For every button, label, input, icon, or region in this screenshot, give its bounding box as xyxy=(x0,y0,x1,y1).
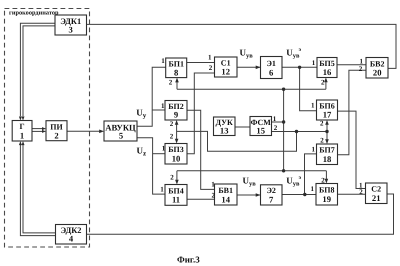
svg-text:2: 2 xyxy=(209,64,213,72)
svg-text:1: 1 xyxy=(160,185,164,193)
svg-text:20: 20 xyxy=(373,67,382,77)
svg-text:11: 11 xyxy=(172,195,180,205)
svg-text:1: 1 xyxy=(312,59,316,67)
svg-text:1: 1 xyxy=(311,102,315,110)
svg-text:2: 2 xyxy=(170,174,174,182)
svg-text:1: 1 xyxy=(208,53,212,61)
svg-text:2: 2 xyxy=(320,137,324,145)
svg-text:2: 2 xyxy=(320,120,324,128)
svg-text:5: 5 xyxy=(119,131,123,141)
svg-text:7: 7 xyxy=(269,194,274,204)
svg-text:2: 2 xyxy=(359,65,363,73)
svg-text:3: 3 xyxy=(69,25,73,35)
svg-text:2: 2 xyxy=(359,188,363,196)
svg-text:15: 15 xyxy=(256,126,265,136)
svg-text:2: 2 xyxy=(170,120,174,128)
svg-text:2: 2 xyxy=(170,132,174,140)
svg-text:13: 13 xyxy=(220,126,229,136)
svg-text:17: 17 xyxy=(323,110,332,120)
svg-text:2: 2 xyxy=(212,191,216,199)
svg-text:Фиг.3: Фиг.3 xyxy=(177,255,200,265)
svg-text:1: 1 xyxy=(311,185,315,193)
svg-text:2: 2 xyxy=(321,176,325,184)
svg-text:1: 1 xyxy=(161,57,165,65)
svg-text:2: 2 xyxy=(274,124,278,132)
svg-text:4: 4 xyxy=(69,234,74,244)
svg-text:1: 1 xyxy=(211,181,215,189)
svg-text:16: 16 xyxy=(323,67,332,77)
svg-text:19: 19 xyxy=(322,194,331,204)
svg-text:1: 1 xyxy=(162,145,166,153)
svg-text:12: 12 xyxy=(221,67,230,77)
svg-text:2: 2 xyxy=(54,130,58,140)
svg-text:2: 2 xyxy=(321,78,325,86)
svg-text:2: 2 xyxy=(169,79,173,87)
svg-text:1: 1 xyxy=(312,145,316,153)
svg-text:21: 21 xyxy=(372,193,381,203)
svg-text:8: 8 xyxy=(174,67,179,77)
svg-text:6: 6 xyxy=(269,67,274,77)
svg-text:10: 10 xyxy=(172,153,181,163)
svg-text:1: 1 xyxy=(161,102,165,110)
svg-text:9: 9 xyxy=(174,110,178,120)
svg-text:14: 14 xyxy=(221,194,230,204)
svg-text:18: 18 xyxy=(323,154,332,164)
svg-text:1: 1 xyxy=(273,115,277,123)
svg-text:1: 1 xyxy=(20,131,24,141)
svg-text:гирокоординатор: гирокоординатор xyxy=(9,10,59,17)
